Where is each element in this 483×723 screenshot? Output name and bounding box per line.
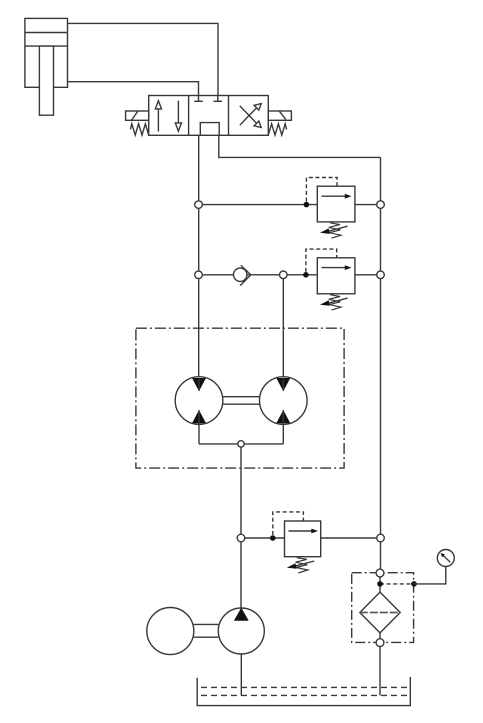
relief valve RV1 body (317, 186, 355, 222)
wire valve port to right rail (219, 135, 381, 157)
wire motors return manifold (199, 443, 283, 445)
node row2 right junction (377, 271, 385, 279)
gauge sense dot left (377, 581, 383, 587)
motor assembly enclosure (dash-dot box) (136, 328, 344, 468)
valve left position up arrow (157, 109, 159, 132)
node row2 left junction (195, 271, 203, 279)
valve center position plugged port A (198, 96, 200, 102)
hydraulic motor M2 (260, 377, 308, 444)
wire filter outlet (379, 633, 381, 639)
RV3 flow arrow (289, 530, 313, 532)
wire to right motor (282, 279, 284, 391)
hydraulic motor M1 (175, 377, 223, 444)
wire row3 (241, 537, 285, 539)
gauge sense dot right (411, 581, 417, 587)
node row3 left junction (237, 534, 245, 542)
check valve (234, 265, 251, 285)
RV1 adjustable spring (320, 223, 348, 238)
valve left position down arrow (177, 101, 179, 123)
RV2 adjustable spring (320, 295, 348, 310)
cylinder piston (25, 32, 68, 34)
wire center drain vertical (240, 444, 242, 608)
spring right (268, 124, 286, 135)
RV3 pilot line (273, 512, 304, 535)
filter enclosure (dash-dot box) (352, 573, 414, 643)
RV3 pilot junction dot (270, 535, 276, 541)
pressure gauge G1 (437, 550, 454, 567)
electric motor circle (147, 608, 194, 655)
RV1 pilot line (306, 178, 337, 202)
RV2 pilot junction dot (303, 272, 309, 278)
node filter top junction (376, 569, 384, 577)
node row2 motor branch junction (280, 271, 288, 279)
wire to pressure gauge (414, 567, 446, 584)
cylinder body (25, 18, 68, 87)
RV2 flow arrow (322, 267, 347, 269)
filter element F1 (360, 592, 400, 633)
tank fluid level dashed lines (201, 686, 409, 688)
RV1 pilot junction dot (304, 202, 310, 208)
RV3 adjustable spring (287, 558, 315, 573)
RV2 pilot line (306, 249, 337, 272)
directional valve body (149, 96, 269, 136)
pump shaft coupling (194, 623, 219, 625)
RV1 flow arrow (322, 195, 347, 197)
wire valve port down left vertical (198, 135, 200, 391)
relief valve RV3 body (285, 521, 321, 557)
wire cylinder top port to valve (68, 23, 219, 95)
solenoid left (126, 111, 149, 120)
pump P1 (218, 608, 264, 654)
wire cylinder bottom port to valve (68, 82, 199, 96)
valve center position plugged port B (217, 96, 219, 102)
relief valve RV2 body (317, 258, 355, 294)
node row1 left junction (195, 201, 203, 209)
gauge sense dashed line (380, 583, 414, 585)
wire pump suction to tank (240, 654, 242, 695)
wire row1 (199, 204, 318, 206)
valve center position U passage (200, 123, 219, 136)
solenoid right (268, 111, 291, 120)
node row1 right junction (377, 201, 385, 209)
motor shaft coupling (223, 396, 260, 398)
node row3 right junction (377, 534, 385, 542)
cylinder rod (39, 46, 53, 115)
wire filter inlet (379, 577, 381, 592)
wire row2 (199, 274, 318, 276)
wire right rail vertical (380, 157, 382, 573)
spring left (130, 124, 148, 135)
tank reservoir (197, 677, 410, 706)
node filter bottom junction (376, 639, 384, 647)
valve right position crossed arrows (240, 108, 256, 125)
node motor return junction (238, 441, 244, 447)
